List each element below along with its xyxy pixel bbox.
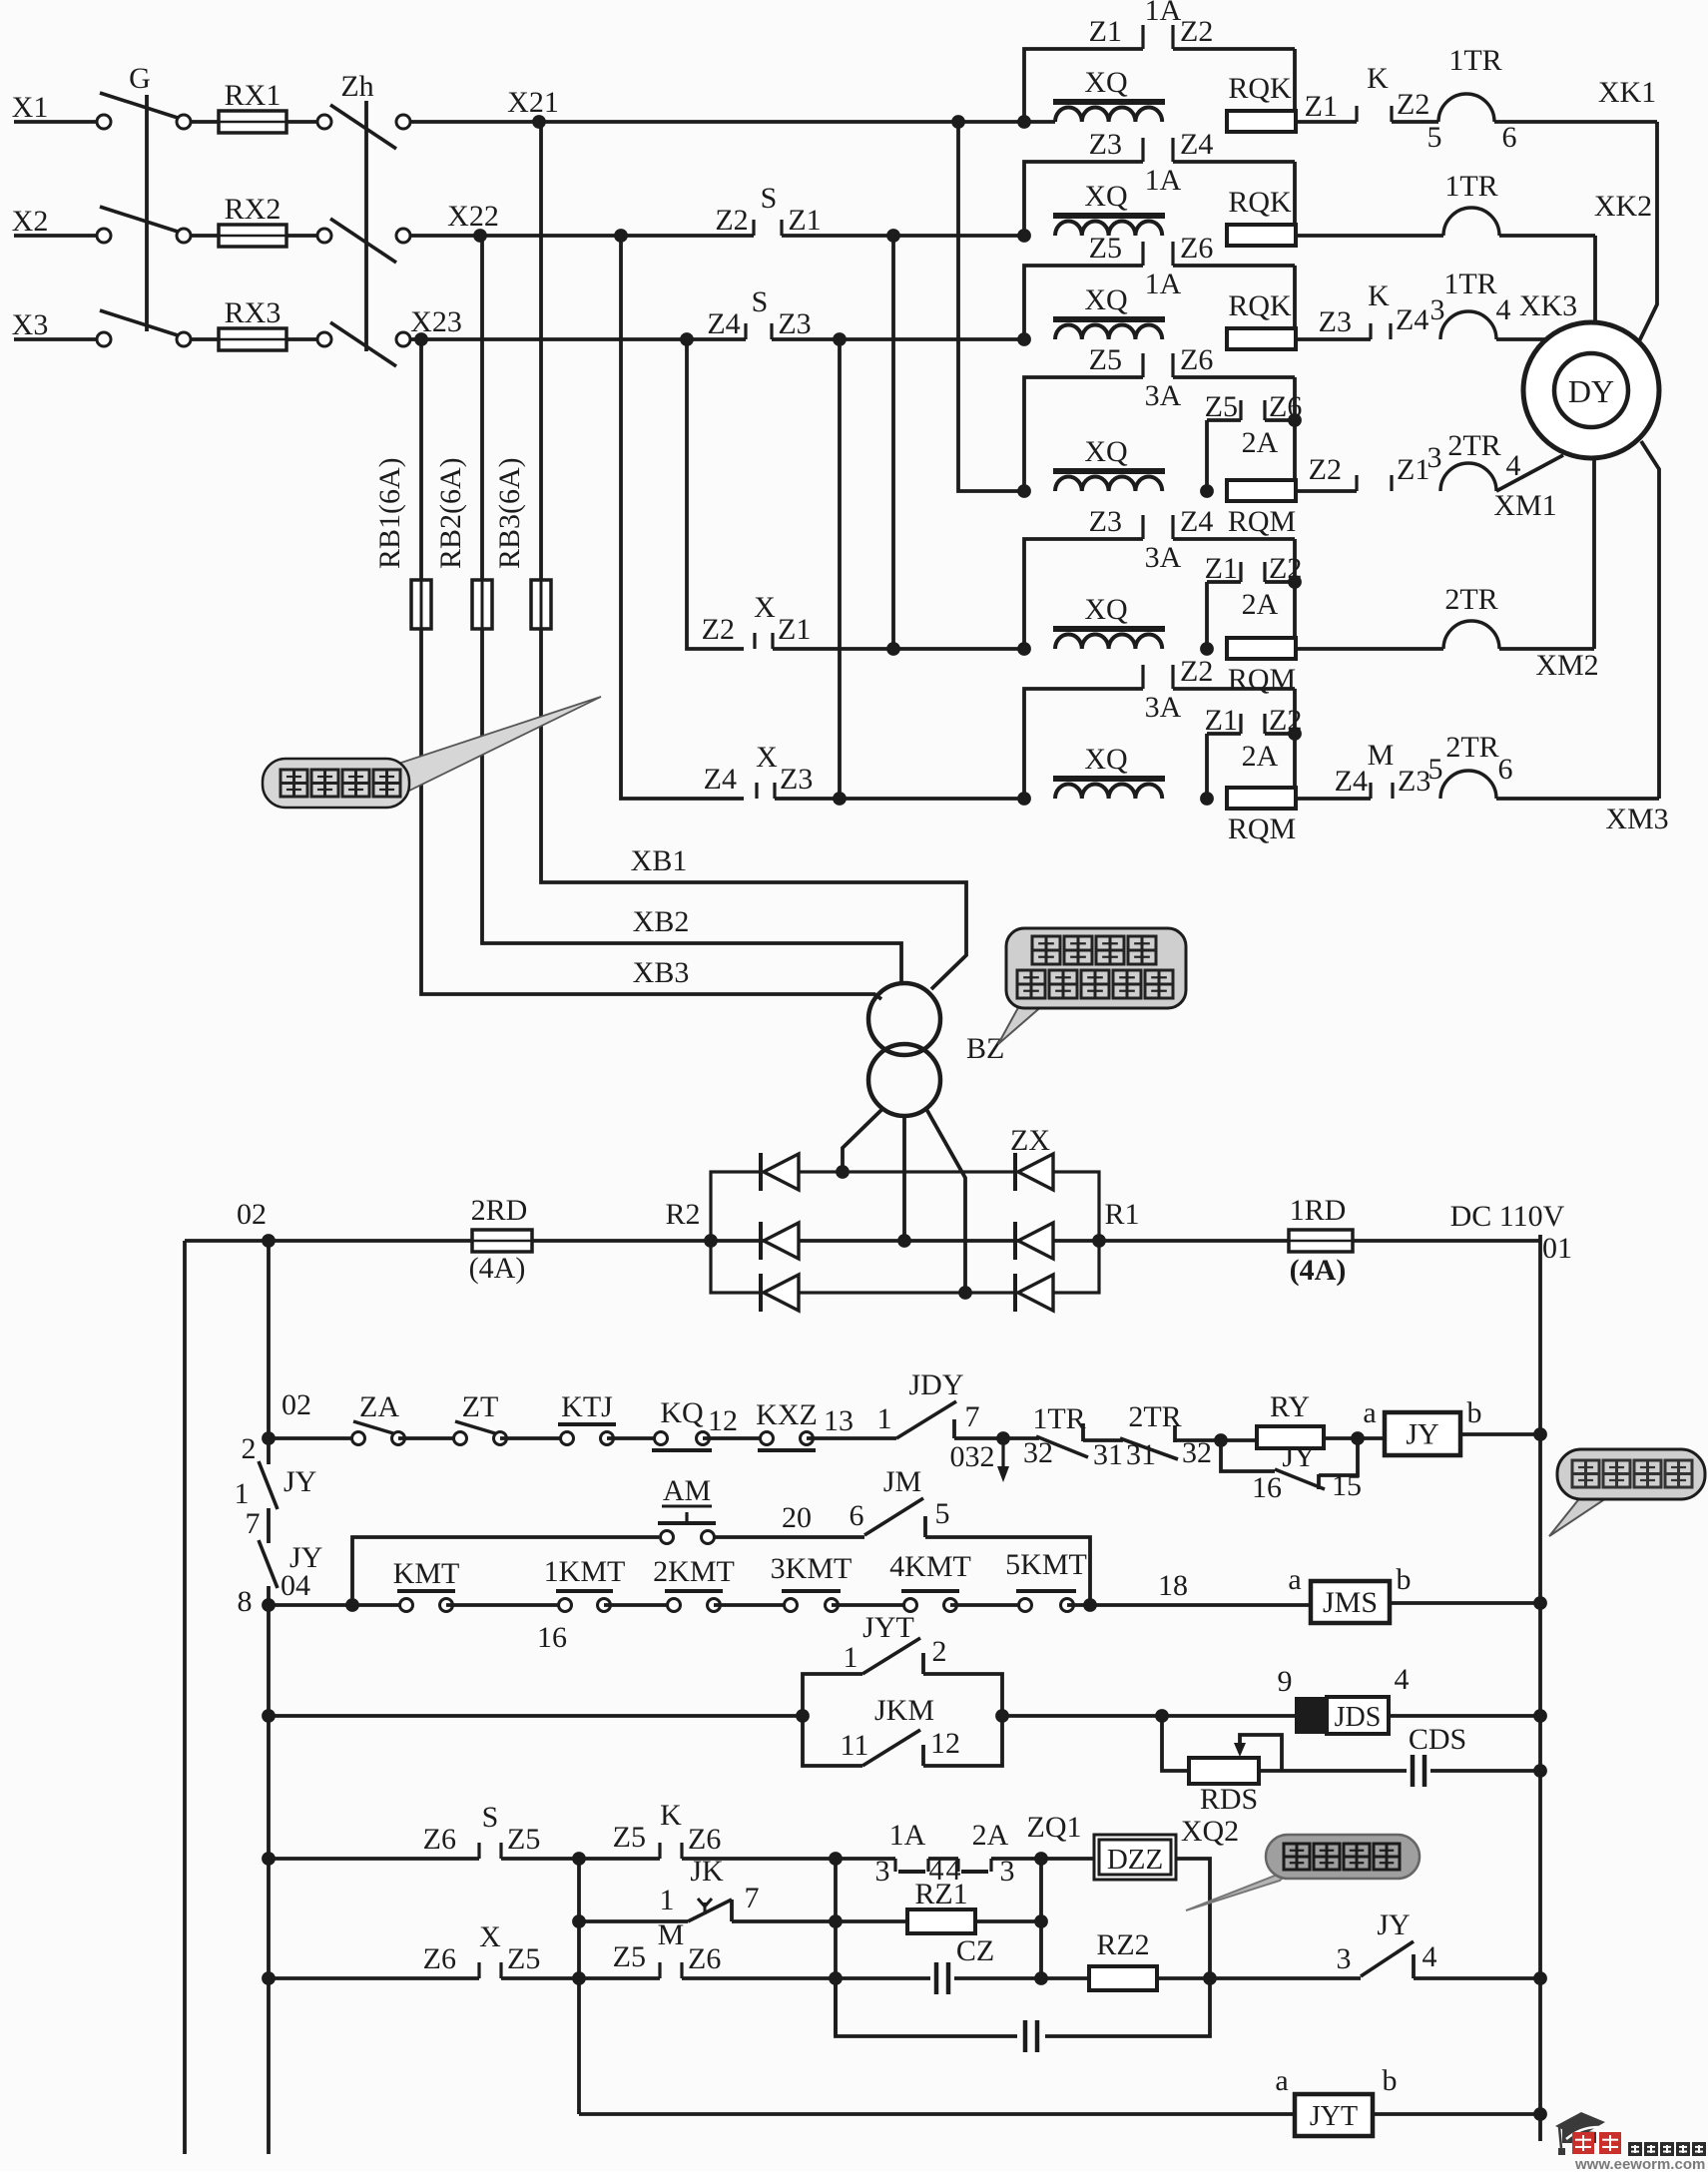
junction JKM right: [995, 1709, 1009, 1723]
wire 02 bus: [185, 1239, 471, 1243]
fuse RX2: [219, 225, 286, 247]
svg-text:1TR: 1TR: [1444, 170, 1497, 203]
wire X23 feed: [410, 337, 421, 341]
svg-text:Z4: Z4: [1180, 128, 1213, 161]
svg-text:K: K: [1368, 279, 1390, 312]
svg-text:02: 02: [282, 1388, 311, 1421]
svg-text:XK3: XK3: [1519, 289, 1577, 322]
svg-text:31: 31: [1093, 1438, 1123, 1471]
wire X21 to XQ row1: [539, 120, 1055, 124]
svg-text:X3: X3: [12, 308, 49, 341]
svg-text:4: 4: [1395, 1663, 1410, 1696]
junction CZ left: [829, 1971, 843, 1985]
wire right bus 01 vertical: [1538, 1235, 1542, 2141]
relay JY: [1385, 1412, 1460, 1455]
junction row5 feed: [886, 642, 900, 656]
wire XB3: [421, 629, 881, 999]
svg-text:Z2: Z2: [1397, 88, 1429, 121]
junction sec-left / bridge top: [836, 1165, 850, 1179]
switch Zh pole 3 blade: [330, 322, 396, 366]
svg-text:Z5: Z5: [507, 1942, 540, 1975]
relay JDS: [1295, 1697, 1327, 1734]
junction RZ1 right: [1034, 1914, 1048, 1928]
svg-text:XQ: XQ: [1084, 435, 1128, 468]
wire to 01 bus: [1373, 2112, 1540, 2116]
svg-text:20: 20: [782, 1501, 812, 1534]
svg-text:4: 4: [1423, 1940, 1437, 1973]
wire X1 input: [14, 120, 97, 124]
switch Zh gang bar: [364, 101, 368, 351]
svg-text:JM: JM: [883, 1465, 921, 1498]
wire X22 to S contact: [480, 234, 754, 238]
terminal RX1-Zh: [317, 115, 331, 129]
contact X (row5) Z2/Z1: [753, 633, 756, 649]
svg-text:KXZ: KXZ: [756, 1398, 818, 1431]
wire X21 feed: [410, 120, 539, 124]
junction 1A branch: [829, 1852, 843, 1866]
wire: [1175, 1438, 1257, 1442]
wire XM1 to motor: [1496, 455, 1563, 491]
svg-text:16: 16: [1252, 1471, 1282, 1504]
contact 1A (3-4): [836, 1857, 895, 1861]
svg-text:3: 3: [875, 1855, 890, 1888]
wire X22 drop to row5: [891, 236, 895, 649]
svg-text:3: 3: [1430, 293, 1445, 326]
junction row4 loop: [1017, 484, 1031, 498]
contact 5KMT: [1019, 1599, 1032, 1612]
wire XK2 down to motor: [1593, 236, 1597, 321]
svg-text:b: b: [1397, 1563, 1412, 1596]
svg-text:Z1: Z1: [1089, 15, 1122, 48]
svg-text:XK1: XK1: [1598, 76, 1656, 109]
resistor RQM (XQ row 5): [1227, 638, 1296, 659]
wire X23 drop to row6: [838, 339, 842, 799]
capacitor CDS bars: [1411, 1755, 1416, 1787]
contact KTJ: [561, 1432, 574, 1445]
wire drop to fuse RB3: [539, 122, 543, 580]
svg-text:6: 6: [1498, 753, 1513, 786]
svg-text:www.eeworm.com: www.eeworm.com: [1574, 2156, 1705, 2171]
contact JK (1-7): [688, 1900, 732, 1921]
svg-text:CZ: CZ: [956, 1934, 994, 1967]
svg-text:RX1: RX1: [225, 79, 282, 112]
wire: [604, 1603, 674, 1607]
wire: [501, 1857, 579, 1861]
wire to motor XK3: [1496, 337, 1547, 341]
contact K (row3) Z3/Z4: [1296, 337, 1371, 341]
contact JKM (11-12) bottom branch: [803, 1716, 862, 1766]
wire XB1: [541, 629, 966, 989]
XQ row 1 bypass loop: [1024, 49, 1143, 122]
svg-text:Z5: Z5: [613, 1940, 646, 1973]
svg-text:Z6: Z6: [423, 1823, 456, 1856]
svg-text:Z4: Z4: [707, 307, 740, 340]
junction row2 right: [1533, 1596, 1547, 1610]
svg-text:Z4: Z4: [1335, 765, 1368, 798]
wire: [501, 1976, 579, 1980]
junction sec-right / bridge bottom: [958, 1286, 972, 1300]
svg-text:7: 7: [246, 1507, 261, 1540]
svg-text:RQK: RQK: [1228, 72, 1292, 105]
wire: [191, 120, 219, 124]
switch G pole 3 blade: [100, 310, 178, 335]
svg-text:2A: 2A: [972, 1819, 1009, 1852]
svg-text:JY: JY: [284, 1465, 316, 1498]
wire: [579, 1857, 660, 1861]
callout bubble: brake circuit: [1186, 1869, 1293, 1910]
svg-text:RQM: RQM: [1228, 813, 1296, 845]
svg-text:XB2: XB2: [633, 905, 690, 938]
junction row3 loop: [1017, 332, 1031, 346]
switch G gang bar: [145, 95, 149, 331]
wire row2 to 1TR: [1296, 234, 1443, 238]
wire: [714, 1535, 864, 1539]
switch Zh pole 2 blade: [330, 219, 396, 263]
svg-text:Z1: Z1: [1397, 453, 1429, 486]
svg-text:KQ: KQ: [660, 1396, 704, 1429]
svg-text:JY: JY: [1282, 1440, 1315, 1473]
svg-text:JYT: JYT: [862, 1611, 914, 1644]
wire X22 drop to row6 contact: [621, 236, 744, 799]
resistor RZ2: [1089, 1966, 1157, 1990]
thermal element 2TR (row4): [1440, 463, 1496, 491]
svg-text:16: 16: [537, 1621, 567, 1654]
thermal element 1TR (row2): [1443, 208, 1499, 236]
wire to node 01: [1353, 1239, 1540, 1243]
svg-text:RZ1: RZ1: [914, 1878, 967, 1910]
svg-text:RY: RY: [1270, 1390, 1310, 1423]
wire: [954, 1436, 1039, 1440]
svg-text:JK: JK: [690, 1855, 724, 1888]
resistor RQM (XQ row 4): [1227, 480, 1296, 501]
wire: [269, 1603, 406, 1607]
junction row2 left: [262, 1598, 276, 1612]
terminal RX3-Zh: [317, 332, 331, 346]
XQ row 2 bypass loop: [1024, 162, 1143, 236]
svg-text:M: M: [1368, 739, 1395, 772]
svg-text:ZA: ZA: [359, 1390, 399, 1423]
contact ZT: [454, 1432, 467, 1445]
wire: [682, 1976, 930, 1980]
wire: [579, 1976, 660, 1980]
potentiometer RDS: [1162, 1716, 1189, 1771]
contact K (brake) Z5/Z6: [658, 1843, 661, 1859]
junction row3 right: [1533, 1709, 1547, 1723]
svg-text:3KMT: 3KMT: [771, 1552, 853, 1585]
junction X23-row6 drop: [833, 332, 847, 346]
wire left bus outer vertical: [183, 1241, 187, 2154]
wire BZ secondary mid: [902, 1116, 906, 1241]
svg-text:X21: X21: [507, 86, 559, 119]
wire X22 feed: [410, 234, 480, 238]
brake coil DZZ: [1094, 1835, 1176, 1880]
svg-text:Z5: Z5: [1205, 390, 1238, 423]
transformer BZ: [868, 983, 940, 1055]
svg-text:2TR: 2TR: [1447, 429, 1500, 462]
contact 3KMT: [785, 1599, 798, 1612]
svg-text:JY: JY: [1406, 1418, 1438, 1451]
svg-text:DY: DY: [1568, 373, 1614, 409]
svg-text:Zh: Zh: [340, 70, 373, 103]
wire drop to fuse RB1: [419, 339, 423, 580]
junction: [1034, 1971, 1048, 1985]
callout bubble: control power & rectifier: [998, 1002, 1044, 1044]
svg-text:4: 4: [1496, 293, 1511, 326]
svg-text:RQM: RQM: [1228, 505, 1296, 538]
inductor XQ (XQ row 3): [1053, 316, 1165, 322]
fuse 2RD: [472, 1230, 532, 1252]
junction row6 left: [262, 1971, 276, 1985]
svg-text:Z2: Z2: [1269, 704, 1302, 737]
wire S to XQ row2: [782, 234, 1024, 238]
svg-text:8: 8: [238, 1585, 253, 1618]
wire: [1414, 1976, 1540, 1980]
svg-text:X: X: [756, 741, 778, 774]
svg-text:3A: 3A: [1145, 379, 1182, 412]
junction: [572, 1971, 586, 1985]
svg-text:04: 04: [281, 1569, 310, 1602]
node X22: [473, 229, 487, 243]
svg-text:32: 32: [1023, 1436, 1053, 1469]
wire: [1083, 1438, 1123, 1442]
AM branch riser: [352, 1537, 659, 1605]
watermark logo graduation cap: [1555, 2112, 1605, 2137]
node R2: [704, 1234, 718, 1248]
wire: [807, 1436, 896, 1440]
wire: [1282, 1769, 1407, 1773]
wire: [269, 1976, 479, 1980]
junction row4 left: [262, 1852, 276, 1866]
wire left bus 02 vertical mid: [267, 1508, 271, 1543]
svg-text:1A: 1A: [1145, 0, 1182, 27]
svg-text:BZ: BZ: [966, 1032, 1004, 1065]
svg-text:XQ: XQ: [1084, 66, 1128, 99]
motor DY: [1523, 322, 1659, 458]
contact JM: [864, 1498, 923, 1535]
diode ZX left bottom: [759, 1274, 763, 1312]
svg-text:b: b: [1383, 2064, 1398, 2097]
wire S-branch vertical: [577, 1859, 581, 2114]
junction JM/row2: [1083, 1598, 1097, 1612]
svg-text:Z3: Z3: [1398, 765, 1430, 798]
wire bridge middle row: [711, 1239, 1099, 1243]
resistor RQK (XQ row 3): [1227, 328, 1296, 349]
resistor RQM (XQ row 6): [1227, 788, 1296, 809]
watermark text chongchong: [1572, 2132, 1594, 2154]
wire R1 to fuse 1RD: [1099, 1239, 1289, 1243]
svg-text:X2: X2: [12, 205, 49, 238]
terminal G-1 right: [177, 115, 191, 129]
junction row1 left: [262, 1431, 276, 1445]
wire: [1430, 1769, 1540, 1773]
wire: [975, 1919, 1041, 1923]
svg-text:a: a: [1275, 2064, 1288, 2097]
wire to XM2: [1499, 647, 1594, 651]
svg-text:RB3(6A): RB3(6A): [493, 457, 526, 569]
svg-text:1: 1: [844, 1641, 858, 1674]
junction inner loop (XQ row 4): [1200, 484, 1214, 498]
svg-text:RQK: RQK: [1228, 289, 1292, 322]
junction row8 right: [1533, 2107, 1547, 2121]
svg-text:1A: 1A: [1145, 268, 1182, 300]
svg-text:X: X: [479, 1920, 501, 1953]
svg-text:7: 7: [965, 1400, 980, 1433]
inductor XQ (XQ row 6): [1053, 776, 1165, 782]
capacitor CZ bars: [934, 1962, 939, 1994]
svg-text:KTJ: KTJ: [561, 1390, 613, 1423]
svg-text:Z1: Z1: [1205, 552, 1238, 585]
parallel capacitor branch: [836, 1978, 1017, 2036]
terminal Zh-3 right: [396, 332, 410, 346]
wire: [269, 1857, 479, 1861]
wire drop to fuse RB2: [480, 236, 484, 580]
svg-text:2A: 2A: [1242, 740, 1279, 773]
wire: [703, 1436, 767, 1440]
wire: [832, 1603, 910, 1607]
svg-text:3A: 3A: [1145, 541, 1182, 574]
svg-text:XQ: XQ: [1084, 180, 1128, 213]
svg-text:3: 3: [1337, 1942, 1352, 1975]
svg-text:Z4: Z4: [1180, 505, 1213, 538]
wire XM3 up to motor: [1641, 441, 1659, 799]
junction RY left: [1214, 1433, 1228, 1447]
svg-text:Z2: Z2: [1180, 655, 1213, 688]
contact X (row6) Z4/Z3: [755, 783, 758, 799]
svg-text:Z1: Z1: [1205, 704, 1238, 737]
terminal X2: [97, 229, 111, 243]
svg-text:Z3: Z3: [1089, 128, 1122, 161]
wire row6: [775, 797, 1024, 801]
wire JM right stub: [923, 1516, 927, 1537]
svg-text:Z2: Z2: [1180, 15, 1213, 48]
wire to 01 bus: [1390, 1601, 1540, 1605]
svg-text:Z1: Z1: [1305, 90, 1338, 123]
contact 4KMT: [904, 1599, 917, 1612]
svg-text:JDS: JDS: [1335, 1702, 1382, 1733]
contact JY (3-4): [1361, 1941, 1414, 1976]
svg-text:G: G: [129, 62, 151, 95]
contact 1TR (NC thermal): [1036, 1436, 1088, 1457]
contact 2KMT: [668, 1599, 681, 1612]
svg-text:a: a: [1288, 1563, 1301, 1596]
junction JK branch: [572, 1852, 586, 1866]
svg-text:XK2: XK2: [1594, 190, 1652, 223]
svg-text:KMT: KMT: [393, 1557, 460, 1590]
svg-text:X23: X23: [410, 305, 462, 338]
junction AM branch: [345, 1598, 359, 1612]
terminal RX2-Zh: [317, 229, 331, 243]
svg-text:ZQ1: ZQ1: [1027, 1811, 1082, 1844]
svg-text:JYT: JYT: [1310, 2101, 1358, 2132]
wire to 01 bus: [1389, 1714, 1540, 1718]
svg-text:DZZ: DZZ: [1107, 1844, 1163, 1876]
svg-text:6: 6: [850, 1499, 864, 1532]
svg-text:2: 2: [932, 1635, 947, 1668]
fuse 1RD: [1289, 1230, 1353, 1252]
svg-text:15: 15: [1332, 1469, 1362, 1502]
svg-text:1KMT: 1KMT: [544, 1555, 626, 1588]
svg-text:Z5: Z5: [507, 1823, 540, 1856]
wire: [286, 120, 317, 124]
svg-text:1: 1: [877, 1402, 892, 1435]
XQ row 6 bypass loop: [1024, 689, 1143, 799]
svg-text:RQK: RQK: [1228, 186, 1292, 219]
terminal Zh-1 right: [396, 115, 410, 129]
svg-text:2TR: 2TR: [1444, 583, 1497, 616]
svg-text:12: 12: [708, 1404, 738, 1437]
svg-text:S: S: [482, 1801, 499, 1834]
switch G pole 2 blade: [100, 207, 178, 232]
wire: [269, 1436, 358, 1440]
svg-text:Z6: Z6: [1269, 390, 1302, 423]
wire to 01 bus: [1460, 1432, 1540, 1436]
terminal G-2 right: [177, 229, 191, 243]
svg-text:7: 7: [745, 1882, 760, 1914]
svg-text:1A: 1A: [1145, 164, 1182, 197]
wire left bus 02 vertical lower: [267, 1586, 271, 2154]
junction X22-row6 drop: [614, 229, 628, 243]
wire: [191, 337, 219, 341]
svg-text:5: 5: [1428, 753, 1443, 786]
svg-text:3A: 3A: [1145, 691, 1182, 724]
junction DZZ return: [1203, 1971, 1217, 1985]
wire: [1067, 1603, 1311, 1607]
svg-text:1RD: 1RD: [1290, 1194, 1347, 1227]
contact JYT (1-2) top branch: [803, 1674, 862, 1716]
svg-text:XQ: XQ: [1084, 593, 1128, 626]
XQ row 6 inner 2A loop: [1293, 689, 1297, 734]
svg-text:3: 3: [1427, 441, 1442, 474]
wire: [286, 234, 317, 238]
fuse RX1: [219, 111, 286, 133]
svg-text:Z5: Z5: [613, 1821, 646, 1854]
svg-text:Z6: Z6: [1180, 343, 1213, 376]
svg-text:Z4: Z4: [704, 763, 737, 796]
wire: [1045, 1978, 1210, 2036]
svg-text:X1: X1: [12, 91, 49, 124]
svg-text:Z6: Z6: [423, 1942, 456, 1975]
callout bubble: elevator circuit: [395, 697, 601, 792]
contact M (brake) Z5/Z6: [658, 1962, 661, 1978]
diode ZX left top: [759, 1153, 763, 1191]
svg-text:Z2: Z2: [1269, 552, 1302, 585]
contact S (X22 line) Z2/Z1: [752, 220, 755, 236]
wire: [398, 1436, 460, 1440]
wire BZ secondary left: [843, 1109, 882, 1172]
junction row1 right: [1533, 1427, 1547, 1441]
inductor XQ (XQ row 5): [1053, 626, 1165, 632]
svg-text:Z2: Z2: [715, 204, 748, 237]
svg-text:XQ: XQ: [1084, 283, 1128, 316]
wire BZ secondary right: [926, 1109, 965, 1293]
callout bubble: safety loop: [1549, 1496, 1609, 1536]
wire: [500, 1436, 567, 1440]
wire: [954, 1976, 1089, 1980]
svg-text:Z6: Z6: [688, 1942, 721, 1975]
wire XK1 down to motor: [1639, 122, 1657, 341]
svg-text:CDS: CDS: [1409, 1723, 1466, 1756]
junction RZ1 left: [829, 1914, 843, 1928]
svg-text:JMS: JMS: [1323, 1586, 1378, 1619]
junction row5 loop: [1017, 642, 1031, 656]
wire XM2 up to motor: [1592, 459, 1596, 649]
wire row5 to 2TR: [1296, 647, 1443, 651]
wire: [607, 1436, 661, 1440]
svg-text:Z3: Z3: [780, 763, 813, 796]
thermal element 2TR (row6): [1440, 771, 1496, 799]
contact JY (1-7) on left vertical: [259, 1461, 278, 1509]
junction row2 loop: [1017, 229, 1031, 243]
